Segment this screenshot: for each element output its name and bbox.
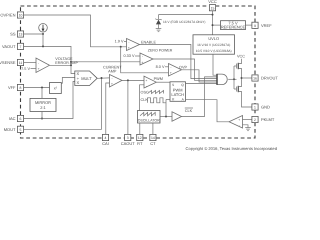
svg-text:-: - bbox=[146, 84, 147, 88]
op-amp current amp bbox=[110, 75, 123, 88]
comparator OVP bbox=[165, 66, 169, 68]
pin VFF 8 bbox=[17, 84, 23, 90]
pin DRVOUT 16 bbox=[252, 75, 258, 81]
wire 7.5V to error amp bbox=[31, 68, 37, 70]
svg-text:OSCILLATOR: OSCILLATOR bbox=[138, 118, 160, 122]
wire RT riser bbox=[139, 123, 141, 134]
wire reference to VREF bbox=[246, 24, 252, 26]
pin VSENSE 11 bbox=[17, 59, 23, 65]
wire VCC rail bbox=[212, 11, 214, 35]
svg-text:9: 9 bbox=[254, 24, 256, 28]
wire CLK to gate bbox=[182, 77, 218, 117]
pin VREF 9 bbox=[252, 22, 258, 28]
svg-text:2: 2 bbox=[254, 118, 256, 122]
svg-text:16: 16 bbox=[253, 77, 257, 81]
svg-text:ERROR AMP: ERROR AMP bbox=[55, 61, 78, 65]
wire error amp output bbox=[50, 64, 72, 66]
pin CAI 4 bbox=[102, 134, 108, 140]
svg-text:OVP: OVP bbox=[179, 65, 187, 69]
wire UVLO to gate bbox=[213, 54, 217, 75]
svg-text:13: 13 bbox=[19, 33, 23, 37]
svg-text:-: - bbox=[111, 76, 112, 80]
pin OVP/EN 10 bbox=[17, 12, 23, 18]
svg-text:GND: GND bbox=[261, 105, 270, 110]
node zero power tap bbox=[70, 61, 72, 63]
wire x2 to multiplier divide input bbox=[61, 78, 75, 84]
svg-text:ZERO POWER: ZERO POWER bbox=[148, 49, 173, 53]
pin PKLMT 2 bbox=[252, 116, 258, 122]
svg-text:11: 11 bbox=[19, 61, 23, 65]
wire SS bbox=[24, 33, 43, 35]
wire VAOUT to zero power comparator bbox=[71, 61, 140, 63]
wire OVP/EN to comparators bbox=[24, 15, 127, 47]
svg-text:-: - bbox=[239, 123, 240, 127]
ground bbox=[156, 29, 162, 32]
svg-text:VCC: VCC bbox=[237, 55, 245, 59]
pin SS 13 bbox=[17, 31, 23, 37]
pin CAOUT 3 bbox=[125, 134, 131, 140]
svg-text:8: 8 bbox=[20, 86, 22, 90]
svg-text:+: + bbox=[141, 60, 143, 64]
svg-text:16 V/10 V (UCC2817A): 16 V/10 V (UCC2817A) bbox=[197, 43, 230, 47]
wire osc to latch R riser bbox=[165, 100, 167, 117]
svg-text:+: + bbox=[128, 46, 130, 50]
svg-text:VAOUT: VAOUT bbox=[2, 44, 16, 49]
svg-text:MOUT: MOUT bbox=[4, 127, 16, 132]
wire MOUT to multiplier output node bbox=[24, 78, 102, 129]
svg-text:REFERENCE: REFERENCE bbox=[221, 25, 246, 30]
svg-text:8.0 V: 8.0 V bbox=[156, 65, 165, 69]
label CLK bar bbox=[185, 107, 193, 109]
svg-text:VSENSE: VSENSE bbox=[0, 60, 16, 65]
mirror block 2:1 bbox=[41, 88, 43, 99]
svg-text:10: 10 bbox=[19, 14, 23, 18]
svg-text:7.5 V: 7.5 V bbox=[21, 67, 30, 71]
svg-text:-: - bbox=[170, 65, 171, 69]
svg-text:5: 5 bbox=[20, 128, 22, 132]
svg-text:UVLO: UVLO bbox=[208, 36, 219, 41]
pin CT 14 bbox=[150, 134, 156, 140]
squarer x2 box bbox=[50, 83, 62, 94]
wire SS riser to VAOUT net bbox=[42, 34, 44, 46]
wire CLK to latch R bbox=[166, 99, 170, 101]
svg-text:OVP/EN: OVP/EN bbox=[0, 13, 15, 18]
wire current amp output bbox=[122, 79, 144, 81]
block UVLO bbox=[193, 35, 235, 54]
svg-text:RT: RT bbox=[137, 141, 143, 146]
svg-text:-: - bbox=[128, 40, 129, 44]
wire IAC to multiplier bbox=[24, 82, 75, 119]
svg-text:Copyright © 2016, Texas Instru: Copyright © 2016, Texas Instruments Inco… bbox=[186, 146, 278, 151]
comparator ENABLE bbox=[124, 41, 127, 43]
wire VFF bbox=[24, 87, 50, 89]
pin VCC 15 bbox=[209, 5, 215, 11]
wire gate output bbox=[228, 78, 236, 80]
wire OVP/EN to OVP comparator bbox=[121, 47, 169, 73]
svg-text:CAOUT: CAOUT bbox=[121, 141, 136, 146]
wire VCC to reference bbox=[213, 24, 221, 26]
wire osc ramp to PWM input bbox=[140, 85, 145, 111]
svg-text:+: + bbox=[111, 82, 113, 86]
multiplier MULT bbox=[75, 71, 97, 86]
wire multiplier output to current amp bbox=[97, 77, 109, 79]
svg-text:AMP: AMP bbox=[108, 69, 117, 73]
svg-text:-: - bbox=[142, 54, 143, 58]
svg-text:10.5 V/10 V (UCC2818A): 10.5 V/10 V (UCC2818A) bbox=[196, 49, 232, 53]
svg-text:Q: Q bbox=[181, 83, 184, 87]
pin MOUT 5 bbox=[17, 126, 23, 132]
wire VSENSE to error amp bbox=[24, 62, 36, 64]
wire CT riser bbox=[152, 123, 154, 134]
wire CAOUT drop bbox=[127, 80, 129, 134]
svg-text:VCC: VCC bbox=[208, 0, 217, 4]
svg-text:+: + bbox=[170, 71, 172, 75]
pin IAC 6 bbox=[17, 115, 23, 121]
svg-text:-: - bbox=[38, 61, 39, 65]
node SS bbox=[42, 33, 44, 35]
svg-text:1.9 V: 1.9 V bbox=[115, 40, 124, 44]
svg-text:7: 7 bbox=[20, 45, 22, 49]
svg-text:+: + bbox=[238, 118, 240, 122]
ground bbox=[245, 128, 251, 131]
svg-text:IAC: IAC bbox=[9, 116, 16, 121]
svg-text:+: + bbox=[38, 67, 40, 71]
comparator PWM bbox=[144, 76, 156, 88]
svg-text:12: 12 bbox=[138, 136, 142, 140]
buffer CLK driver bbox=[172, 112, 182, 121]
oscillator block bbox=[138, 111, 161, 124]
block 7.5V reference bbox=[221, 21, 246, 30]
waveform OSC sawtooth bbox=[148, 91, 164, 94]
wire gate bus bbox=[233, 66, 235, 89]
svg-text:SS: SS bbox=[10, 32, 16, 37]
svg-text:PWM: PWM bbox=[154, 77, 163, 81]
node driver output bbox=[241, 77, 243, 79]
svg-text:VFF: VFF bbox=[8, 85, 16, 90]
svg-text:ENABLE: ENABLE bbox=[141, 41, 156, 45]
svg-text:CLK: CLK bbox=[185, 109, 193, 113]
svg-text:0.33 V: 0.33 V bbox=[124, 54, 135, 58]
svg-text:VREF: VREF bbox=[261, 23, 272, 28]
wire latch Q to gate bbox=[186, 82, 218, 84]
svg-text:6: 6 bbox=[20, 117, 22, 121]
pin RT 12 bbox=[137, 134, 143, 140]
svg-text:15: 15 bbox=[211, 6, 215, 10]
wire ENABLE output bbox=[140, 45, 218, 79]
wire VAOUT bbox=[24, 46, 75, 73]
svg-text:1: 1 bbox=[254, 106, 256, 110]
svg-text:+: + bbox=[145, 79, 147, 83]
wire PKLMT comp to latch A bbox=[186, 100, 230, 122]
svg-text:MULT: MULT bbox=[81, 76, 92, 81]
pin GND 1 bbox=[252, 104, 258, 110]
zener 16V clamp bbox=[158, 15, 160, 20]
svg-text:14: 14 bbox=[151, 136, 155, 140]
node OVP/EN branch bbox=[120, 46, 122, 48]
wire OVP output bbox=[182, 70, 218, 82]
svg-text:3: 3 bbox=[127, 136, 129, 140]
wire ZERO POWER output bbox=[153, 59, 217, 80]
pin VAOUT 7 bbox=[17, 43, 23, 49]
svg-text:LATCH: LATCH bbox=[171, 92, 184, 97]
wire to DRVOUT bbox=[242, 77, 252, 79]
wire oscillator output bbox=[160, 116, 172, 118]
wire CAI to current amp bbox=[106, 83, 110, 134]
svg-text:X: X bbox=[76, 80, 79, 85]
svg-text:2:1: 2:1 bbox=[40, 105, 45, 110]
svg-text:CAI: CAI bbox=[102, 141, 109, 146]
latch PWM LATCH bbox=[170, 82, 186, 102]
svg-text:PKLMT: PKLMT bbox=[261, 117, 275, 122]
svg-text:16 V (FOR UCC2817A ONLY): 16 V (FOR UCC2817A ONLY) bbox=[163, 20, 205, 24]
current source I-SS bbox=[39, 24, 48, 33]
IC dashed boundary bbox=[21, 6, 256, 138]
wire PWM output to latch S bbox=[156, 81, 170, 83]
op-amp voltage error amp bbox=[36, 58, 50, 73]
gate AND drive logic bbox=[217, 74, 227, 85]
wire mirror to IAC bbox=[41, 112, 43, 119]
svg-text:OSC: OSC bbox=[141, 91, 149, 95]
svg-text:DRVOUT: DRVOUT bbox=[261, 76, 278, 81]
waveform CLK square wave bbox=[148, 98, 167, 103]
comparator PKLMT bbox=[243, 119, 252, 121]
transistor lower driver FET bbox=[236, 87, 238, 92]
comparator ZERO POWER bbox=[135, 55, 140, 57]
transistor upper driver FET bbox=[236, 64, 238, 69]
svg-text:CT: CT bbox=[150, 141, 156, 146]
svg-text:4: 4 bbox=[105, 136, 107, 140]
